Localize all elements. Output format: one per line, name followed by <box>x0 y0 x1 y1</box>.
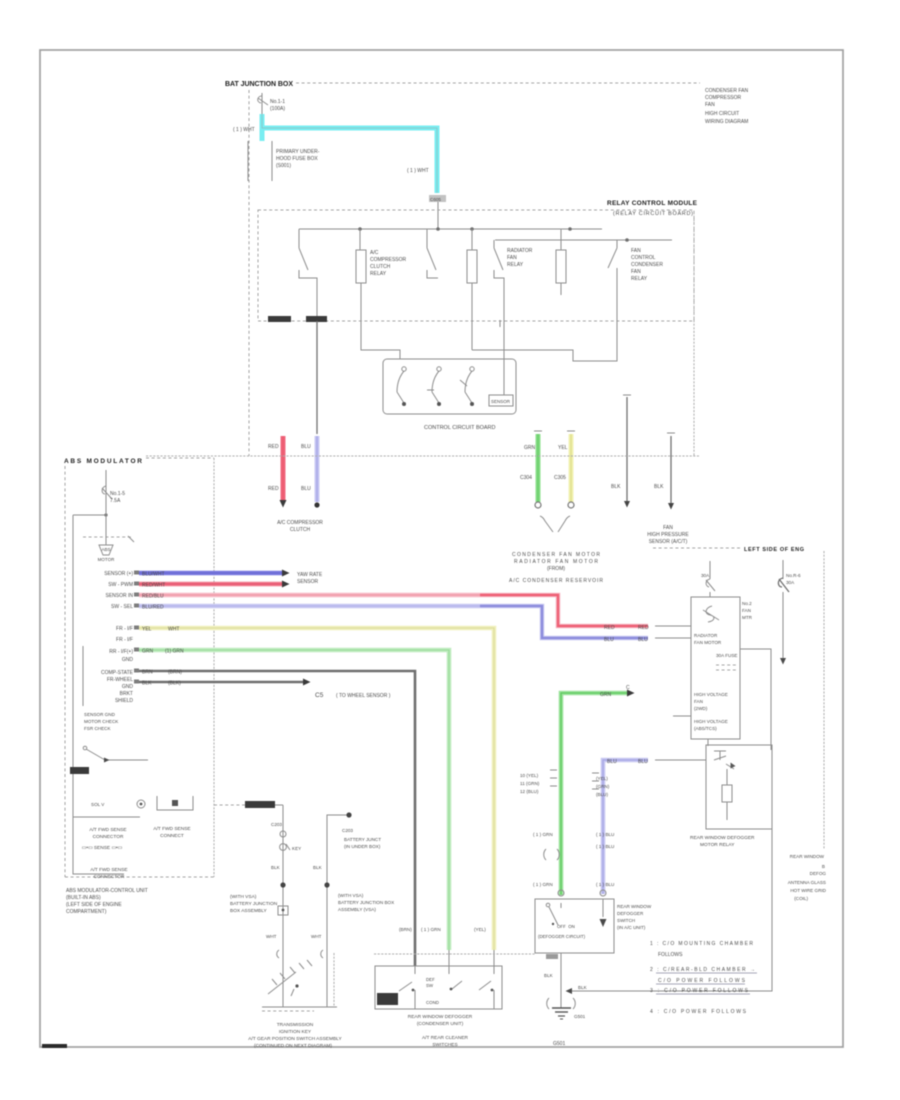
svg-text:SENSOR: SENSOR <box>491 399 511 404</box>
svg-text:(YEL): (YEL) <box>474 927 486 932</box>
svg-text:( 1 ) BLU: ( 1 ) BLU <box>596 882 614 887</box>
svg-text:RELAY CONTROL MODULE: RELAY CONTROL MODULE <box>607 200 698 207</box>
svg-text:WHT: WHT <box>311 934 322 939</box>
svg-text:GRN: GRN <box>142 649 154 655</box>
wire from box A to defogger relay <box>707 739 709 746</box>
svg-text:CLUTCH: CLUTCH <box>290 527 311 533</box>
wire bus 8 gray short <box>139 679 391 700</box>
wire bus 3 pink long <box>139 594 691 632</box>
svg-text:BRKT: BRKT <box>120 691 133 697</box>
svg-text:TRANSMISSION: TRANSMISSION <box>277 1022 314 1028</box>
svg-text:BLK: BLK <box>654 484 664 490</box>
fuse F1 No.1-1 <box>258 93 286 114</box>
node BAT junction box header <box>225 81 293 88</box>
svg-text:DEFOG: DEFOG <box>810 871 827 876</box>
fuse F2 inside ABS box <box>102 470 125 532</box>
svg-text:FR - I/F: FR - I/F <box>116 626 133 632</box>
svg-text:COMPRESSOR: COMPRESSOR <box>370 257 407 263</box>
svg-text:FAN: FAN <box>631 248 641 254</box>
dashed vertical right of fuse area <box>693 212 695 456</box>
svg-text:BLK: BLK <box>578 985 588 990</box>
wire K3 to control board <box>503 321 505 358</box>
svg-text:BLU/WHT: BLU/WHT <box>142 572 165 578</box>
relay K3 switch <box>494 240 533 321</box>
svg-text:GND: GND <box>122 657 134 663</box>
label A/C compressor clutch below red blue <box>277 520 323 533</box>
svg-text:( 1 ) BLU: ( 1 ) BLU <box>596 844 614 849</box>
relay control module dashed box <box>258 200 698 321</box>
svg-text:C203: C203 <box>271 822 282 827</box>
junction V to fan motors <box>509 516 603 584</box>
svg-text:FAN: FAN <box>742 608 751 613</box>
svg-text:WHT: WHT <box>266 934 277 939</box>
svg-text:ANTENNA GLASS: ANTENNA GLASS <box>788 880 826 885</box>
ABS box lower: brake switch <box>83 746 148 762</box>
svg-text:SWITCH: SWITCH <box>617 918 635 923</box>
svg-text:FR - I/F: FR - I/F <box>116 637 133 643</box>
label fan high pressure switch <box>647 525 689 545</box>
svg-text:CONNECTOR: CONNECTOR <box>94 874 125 880</box>
svg-text:MOTOR: MOTOR <box>98 557 115 562</box>
svg-text:MOTOR CHECK: MOTOR CHECK <box>84 719 119 724</box>
chain B accessory feed <box>311 812 394 1007</box>
svg-text:SWITCHES: SWITCHES <box>432 1042 457 1048</box>
transistor Q3 <box>460 367 474 406</box>
svg-text:HIGH CIRCUIT: HIGH CIRCUIT <box>705 111 739 117</box>
svg-text:GRN: GRN <box>524 445 536 451</box>
small pump motor glyph <box>98 545 115 562</box>
svg-text:SW - PWM: SW - PWM <box>108 582 133 588</box>
chain A ignition feed <box>266 805 301 1007</box>
wire labels entering bottom box <box>399 927 486 932</box>
svg-text:HIGH PRESSURE: HIGH PRESSURE <box>647 532 689 538</box>
svg-text:RELAY: RELAY <box>631 276 648 282</box>
svg-text:(FROM): (FROM) <box>547 566 565 572</box>
bottom box captions <box>408 1014 473 1048</box>
svg-text:RED: RED <box>268 486 279 492</box>
svg-text:YEL: YEL <box>142 627 152 633</box>
annotation top right <box>705 88 748 125</box>
svg-text:(BLK): (BLK) <box>168 681 181 687</box>
svg-text:BATTERY JUNCTION: BATTERY JUNCTION <box>230 901 278 907</box>
dashed line above bottom box <box>374 953 535 955</box>
page number mark <box>42 1044 67 1048</box>
wire lavender defogger control <box>603 759 706 894</box>
svg-text:SENSOR IN: SENSOR IN <box>105 593 133 599</box>
svg-text:FSR CHECK: FSR CHECK <box>84 726 111 731</box>
svg-text:ASSEMBLY (VSA): ASSEMBLY (VSA) <box>338 907 376 912</box>
svg-text:MTR: MTR <box>742 615 753 620</box>
lavender chain labels <box>592 773 614 896</box>
svg-text:LEFT SIDE OF ENG: LEFT SIDE OF ENG <box>744 547 804 553</box>
wire green radiator fan feed <box>561 685 635 895</box>
ABS unit caption below box <box>66 888 148 915</box>
svg-text:COMP-STATE: COMP-STATE <box>101 670 134 676</box>
svg-text:A/C COMPRESSOR: A/C COMPRESSOR <box>277 520 323 526</box>
bottom rail of ignition chains <box>262 1007 337 1011</box>
svg-text:YEL: YEL <box>558 445 568 451</box>
svg-text:RADIATOR: RADIATOR <box>694 633 718 638</box>
svg-text:FAN: FAN <box>663 525 673 531</box>
connector tick at module bottom center <box>499 320 501 327</box>
wire bus 2 red <box>139 581 290 589</box>
svg-text:7.5A: 7.5A <box>110 498 121 504</box>
bus rail 2 inside relay module <box>495 238 672 242</box>
svg-text:REAR WINDOW: REAR WINDOW <box>617 904 652 909</box>
svg-text:ABS: ABS <box>101 547 110 552</box>
svg-text:HOT WIRE GRID: HOT WIRE GRID <box>790 888 826 893</box>
svg-text:HOOD FUSE BOX: HOOD FUSE BOX <box>276 156 318 162</box>
wire cyan battery feed <box>262 114 437 193</box>
transmission caption <box>248 1022 342 1049</box>
svg-text:BLK: BLK <box>142 681 152 687</box>
svg-text:HIGH VOLTAGE: HIGH VOLTAGE <box>694 719 728 724</box>
svg-text:(CONTINUED ON NEXT DIAGRAM): (CONTINUED ON NEXT DIAGRAM) <box>254 1043 332 1049</box>
svg-text:BLK: BLK <box>611 484 621 490</box>
svg-text:10 (YEL): 10 (YEL) <box>520 773 539 778</box>
svg-text:FAN: FAN <box>705 102 715 108</box>
svg-text:OFF ON: OFF ON <box>557 924 575 929</box>
pin labels column <box>101 571 134 704</box>
svg-text:BLU: BLU <box>604 637 614 643</box>
wire K4 switch to control board junction <box>472 321 617 361</box>
svg-text:▭•▭ SENSE ▭•▭: ▭•▭ SENSE ▭•▭ <box>82 845 123 851</box>
rear window defogger relay box C <box>706 745 772 829</box>
svg-text:SENSOR: SENSOR <box>297 579 319 585</box>
svg-text:(DEFOGGER CIRCUIT): (DEFOGGER CIRCUIT) <box>538 934 586 939</box>
connector circle in ABS box <box>91 800 145 808</box>
svg-text:( 1 ) WHT: ( 1 ) WHT <box>407 168 429 174</box>
svg-text:REAR WINDOW DEFOGGER: REAR WINDOW DEFOGGER <box>408 1014 473 1020</box>
wire yellow vertical condenser fan <box>554 431 575 508</box>
svg-text:No.1-1: No.1-1 <box>270 99 285 105</box>
wire gray vertical fan control <box>611 395 631 508</box>
svg-text:(IN A/C UNIT): (IN A/C UNIT) <box>617 925 646 930</box>
bold connector label bottom box <box>377 993 398 1005</box>
right engine compartment dashed boundary <box>653 547 824 849</box>
notes list right bottom <box>650 941 757 1015</box>
fuse F3 feed tick <box>701 561 719 622</box>
wire bus 7 gray long <box>139 670 415 967</box>
svg-text:YAW RATE: YAW RATE <box>297 572 323 578</box>
connector pin ticks on ABS unit edge <box>134 571 139 684</box>
svg-text:CONNECT: CONNECT <box>160 833 184 839</box>
svg-text:(BRN): (BRN) <box>399 927 412 932</box>
wire switch to ground <box>544 953 575 1009</box>
svg-text:KEY: KEY <box>292 846 301 851</box>
wire gray vertical 2 <box>654 433 675 510</box>
svg-text:BLK: BLK <box>544 973 554 978</box>
box B condenser sub box <box>740 601 771 750</box>
svg-text:( 1 ) GRN: ( 1 ) GRN <box>533 832 553 837</box>
wire K1 coil to control board <box>361 321 400 359</box>
svg-text:MOTOR RELAY: MOTOR RELAY <box>700 842 735 848</box>
under-hood fuse box dashed boundary <box>249 83 700 456</box>
svg-text:WIRING DIAGRAM: WIRING DIAGRAM <box>705 119 748 125</box>
control circuit board U1 <box>383 359 516 431</box>
svg-text:SENSOR (+): SENSOR (+) <box>104 571 133 577</box>
svg-text:12 (BLU): 12 (BLU) <box>520 789 539 794</box>
svg-text:(LEFT SIDE OF ENGINE: (LEFT SIDE OF ENGINE <box>66 902 122 908</box>
svg-text:ABS MODULATOR: ABS MODULATOR <box>64 458 142 465</box>
svg-text:COND: COND <box>426 1000 439 1005</box>
resistor inside relay C <box>722 769 732 820</box>
relay K4 switch <box>608 240 663 321</box>
svg-text:RED/WHT: RED/WHT <box>142 583 165 589</box>
svg-text:CONDENSER FAN: CONDENSER FAN <box>705 88 748 94</box>
svg-text:BLU: BLU <box>301 486 311 492</box>
svg-text:( 1 ) GRN: ( 1 ) GRN <box>421 927 441 932</box>
svg-text:SOL V: SOL V <box>91 802 105 807</box>
svg-text:4 : C/O POWER FOLLOWS: 4 : C/O POWER FOLLOWS <box>650 1009 747 1015</box>
wire bus 4 lavender long <box>139 605 691 644</box>
svg-text:RED: RED <box>268 444 279 450</box>
switch glyphs inside bottom box <box>399 966 494 1009</box>
wire bus 6 green long <box>139 649 449 967</box>
relay K3 coil <box>556 229 566 295</box>
wire ground path from relay C <box>566 750 773 994</box>
svg-text:COMPRESSOR: COMPRESSOR <box>705 95 742 101</box>
svg-text:G501: G501 <box>574 1014 586 1019</box>
svg-text:BLU: BLU <box>638 637 648 643</box>
dashed separator of fuse box bottom <box>146 455 700 457</box>
svg-text:C304: C304 <box>520 475 532 481</box>
green chain labels <box>520 770 557 887</box>
svg-text:FAN MOTOR: FAN MOTOR <box>694 640 722 645</box>
svg-text:CONNECTOR: CONNECTOR <box>93 834 124 840</box>
svg-text:(IN UNDER BOX): (IN UNDER BOX) <box>344 844 381 849</box>
right side note block <box>788 854 827 901</box>
svg-text:CONTROL: CONTROL <box>631 255 656 261</box>
svg-text:1 : C/O MOUNTING CHAMBER: 1 : C/O MOUNTING CHAMBER <box>650 941 753 947</box>
svg-text:30A FUSE: 30A FUSE <box>716 653 737 658</box>
fuse F4 <box>778 560 801 665</box>
chain A side caption <box>230 894 278 914</box>
svg-text:C: C <box>626 685 630 691</box>
wire green vertical radiator fan <box>520 431 542 508</box>
svg-text:3 : C/O POWER FOLLOWS: 3 : C/O POWER FOLLOWS <box>650 988 749 994</box>
svg-text:SENSOR GND: SENSOR GND <box>84 712 116 717</box>
svg-text:FR-WHEEL: FR-WHEEL <box>107 677 133 683</box>
connector C at cyan wire end <box>429 195 446 202</box>
svg-text:( TO WHEEL SENSOR ): ( TO WHEEL SENSOR ) <box>336 693 391 699</box>
svg-text:30A: 30A <box>786 580 795 585</box>
svg-text:RELAY: RELAY <box>507 262 524 268</box>
svg-text:WHT: WHT <box>168 627 179 633</box>
svg-text:A/T FWD SENSE: A/T FWD SENSE <box>153 826 190 832</box>
svg-text:IGNITION KEY: IGNITION KEY <box>279 1029 312 1035</box>
svg-text:BLU/RED: BLU/RED <box>142 605 164 611</box>
dashed connector mark <box>83 532 134 545</box>
svg-text:RED/BLU: RED/BLU <box>142 594 164 600</box>
svg-text:PRIMARY UNDER-: PRIMARY UNDER- <box>276 149 320 155</box>
svg-text:No.1-5: No.1-5 <box>110 491 125 497</box>
svg-text:SW: SW <box>426 983 434 988</box>
bottom junction box <box>375 966 502 1009</box>
relay K1 coil <box>356 229 407 321</box>
svg-text:BLU: BLU <box>638 759 648 765</box>
svg-text:BLK: BLK <box>313 865 323 870</box>
relay K2 coil <box>467 229 477 350</box>
svg-text:(CONDENSER UNIT): (CONDENSER UNIT) <box>417 1021 464 1027</box>
svg-text:REAR WINDOW: REAR WINDOW <box>790 854 825 859</box>
svg-text:( 1 ) WHT: ( 1 ) WHT <box>233 127 255 133</box>
svg-text:HIGH VOLTAGE: HIGH VOLTAGE <box>694 692 728 697</box>
svg-text:C605: C605 <box>430 197 441 202</box>
svg-text:DEF: DEF <box>426 977 435 982</box>
ignition switch rotary symbol <box>268 960 312 996</box>
svg-text:RED: RED <box>638 625 649 631</box>
svg-text:C203: C203 <box>342 828 353 833</box>
wire bus 1 blue <box>139 570 323 586</box>
svg-text:RELAY: RELAY <box>370 271 387 277</box>
svg-text:SENSOR (A/C/T): SENSOR (A/C/T) <box>649 539 688 545</box>
svg-text:A/C CONDENSER RESERVOIR: A/C CONDENSER RESERVOIR <box>509 578 603 584</box>
dashed stub near chain B <box>333 953 335 1006</box>
fan motor unit box A <box>673 597 740 739</box>
svg-text:( 1 ) BLU: ( 1 ) BLU <box>596 832 614 837</box>
svg-text:FOLLOWS: FOLLOWS <box>658 952 683 958</box>
svg-text:COMPARTMENT): COMPARTMENT) <box>66 909 107 915</box>
connector pair on green wire <box>544 849 564 896</box>
svg-text:(YEL): (YEL) <box>596 776 608 781</box>
svg-text:A/T FWD SENSE: A/T FWD SENSE <box>89 827 126 833</box>
wire blue feed from K1 <box>316 321 318 434</box>
svg-text:RADIATOR: RADIATOR <box>507 248 533 254</box>
sensor block inside board <box>489 358 513 406</box>
label below relay C <box>690 835 755 848</box>
svg-text:C5: C5 <box>315 692 324 699</box>
svg-text:FAN: FAN <box>507 255 517 261</box>
mode switch caption <box>617 904 652 930</box>
connector label [E] left of fuse <box>233 127 255 133</box>
svg-text:CONDENSER: CONDENSER <box>631 262 663 268</box>
svg-text:11 (GRN): 11 (GRN) <box>520 781 540 786</box>
svg-text:GRN: GRN <box>600 692 612 698</box>
transistor Q1 <box>397 367 406 406</box>
relay K2 switch <box>427 229 438 278</box>
svg-text:( 1 ) GRN: ( 1 ) GRN <box>533 882 553 887</box>
svg-text:RR - I/F(+): RR - I/F(+) <box>109 649 133 655</box>
bus rail 1 inside relay module <box>299 227 602 231</box>
label WHT on cyan wire <box>407 168 429 174</box>
svg-text:(2WD): (2WD) <box>694 706 708 711</box>
svg-text:No.R-6: No.R-6 <box>786 573 801 578</box>
svg-text:DEFOGGER: DEFOGGER <box>617 911 644 916</box>
svg-text:BRN: BRN <box>142 670 153 676</box>
ABS unit inner outline <box>73 513 140 874</box>
transistor Q2 <box>427 367 441 406</box>
svg-text:(S001): (S001) <box>276 163 291 169</box>
svg-text:A/C: A/C <box>370 250 379 256</box>
svg-text:C305: C305 <box>554 475 566 481</box>
svg-text:(GRN): (GRN) <box>596 784 610 789</box>
svg-text:(BRN): (BRN) <box>168 670 182 676</box>
svg-text:ABS MODULATOR-CONTROL UNIT: ABS MODULATOR-CONTROL UNIT <box>66 888 148 894</box>
svg-text:BLK: BLK <box>271 865 281 870</box>
svg-text:(100A): (100A) <box>270 106 285 112</box>
primary under-hood fuse box sub-outline <box>248 141 320 181</box>
svg-text:(COIL): (COIL) <box>794 896 808 901</box>
svg-text:B: B <box>822 864 825 869</box>
connector label C415 <box>70 767 89 774</box>
ABS modulator-control unit dashed box <box>64 458 214 877</box>
transistor inside relay C <box>714 751 736 769</box>
wire bus 5 yellow long <box>139 627 494 967</box>
connector labels at module bottom <box>268 316 327 322</box>
svg-text:A/T REAR CLEANER: A/T REAR CLEANER <box>422 1035 469 1041</box>
bracket component in ABS box <box>157 796 193 810</box>
svg-text:GND: GND <box>122 684 134 690</box>
svg-text:BOX ASSEMBLY: BOX ASSEMBLY <box>230 908 268 914</box>
svg-text:(BLU): (BLU) <box>596 792 608 797</box>
svg-text:RED: RED <box>604 625 615 631</box>
svg-text:(1) GRN: (1) GRN <box>165 649 184 655</box>
svg-text:BAT JUNCTION BOX: BAT JUNCTION BOX <box>225 81 293 88</box>
svg-text:2 : C/REAR-BLD CHAMBER →: 2 : C/REAR-BLD CHAMBER → <box>650 967 755 973</box>
svg-text:CLUTCH: CLUTCH <box>370 264 391 270</box>
svg-text:(RELAY CIRCUIT BOARD): (RELAY CIRCUIT BOARD) <box>613 211 693 217</box>
svg-text:CONDENSER FAN MOTOR: CONDENSER FAN MOTOR <box>512 552 600 558</box>
ABS box bottom captions <box>82 826 191 880</box>
svg-text:SHIELD: SHIELD <box>115 698 133 704</box>
shift position dashed label <box>214 801 283 808</box>
svg-text:BLU: BLU <box>301 444 311 450</box>
svg-text:REAR WINDOW DEFOGGER: REAR WINDOW DEFOGGER <box>690 835 755 841</box>
svg-text:(BUILT-IN ABS): (BUILT-IN ABS) <box>66 895 101 901</box>
ground G501 <box>552 1008 586 1047</box>
wire red vertical to compressor <box>268 436 287 508</box>
svg-text:No.2: No.2 <box>742 601 752 606</box>
svg-text:CONTROL CIRCUIT BOARD: CONTROL CIRCUIT BOARD <box>424 425 496 431</box>
svg-text:G501: G501 <box>553 1041 565 1047</box>
svg-text:A/T GEAR POSITION SWITCH ASSEM: A/T GEAR POSITION SWITCH ASSEMBLY <box>248 1036 342 1042</box>
svg-text:30A: 30A <box>701 573 710 578</box>
svg-text:C/O POWER FOLLOWS: C/O POWER FOLLOWS <box>658 978 746 984</box>
svg-text:A/T FWD SENSE: A/T FWD SENSE <box>90 867 127 873</box>
relay K1 A/C compressor clutch relay : switch <box>299 229 317 321</box>
svg-text:(WITH VSA): (WITH VSA) <box>230 894 257 900</box>
svg-text:BATTERY JUNCTION BOX: BATTERY JUNCTION BOX <box>338 900 394 905</box>
svg-text:SW - SEL: SW - SEL <box>111 604 133 610</box>
svg-text:BATTERY JUNCT: BATTERY JUNCT <box>344 837 381 842</box>
svg-text:RADIATOR FAN MOTOR: RADIATOR FAN MOTOR <box>514 559 598 565</box>
svg-text:(WITH VSA): (WITH VSA) <box>338 893 364 898</box>
mode switch box <box>535 899 614 953</box>
text sensor labels in ABS box <box>84 712 119 731</box>
svg-text:(ABS/TCS): (ABS/TCS) <box>694 726 717 731</box>
svg-text:BLU: BLU <box>607 759 617 765</box>
wire blue vertical from K1 <box>301 436 320 508</box>
svg-text:FAN: FAN <box>694 699 703 704</box>
wire from connector into relay module <box>437 202 439 229</box>
svg-text:FAN: FAN <box>631 269 641 275</box>
